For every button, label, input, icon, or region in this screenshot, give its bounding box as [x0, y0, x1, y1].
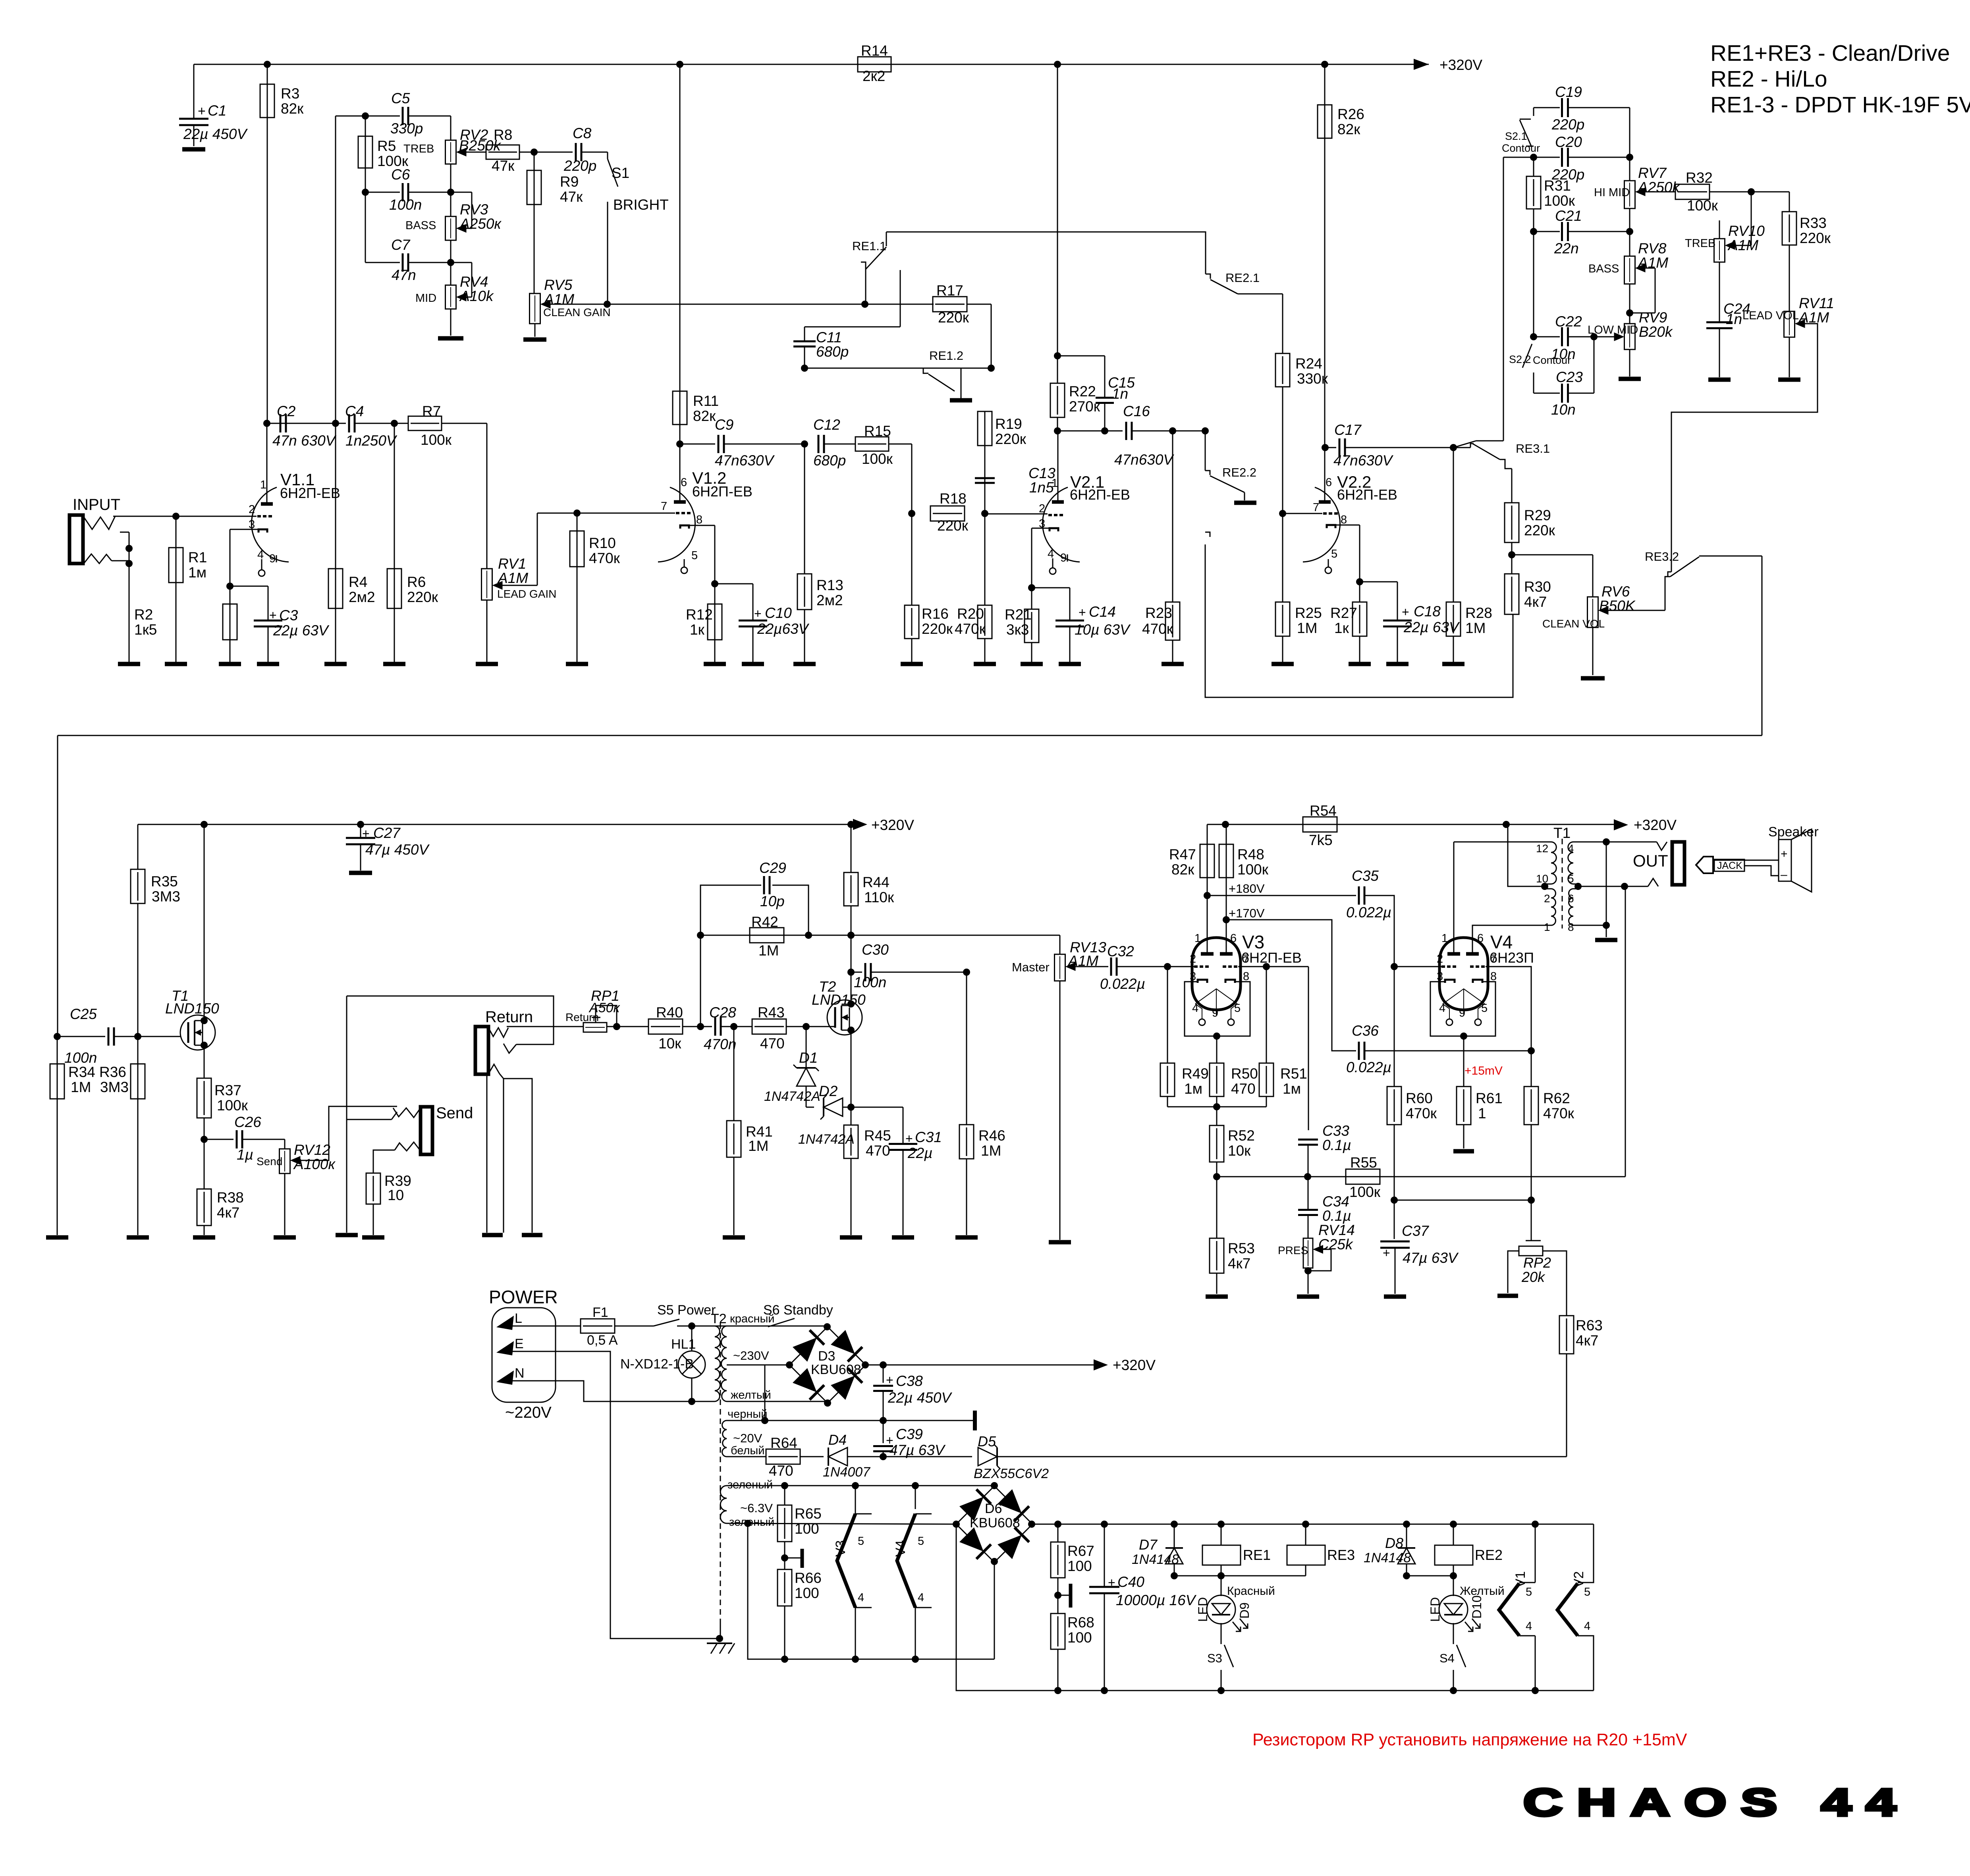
svg-text:6Н2П-ЕВ: 6Н2П-ЕВ — [280, 485, 340, 501]
ground — [219, 662, 241, 666]
svg-text:+: + — [1781, 847, 1788, 861]
svg-text:C37: C37 — [1402, 1223, 1429, 1239]
svg-text:100: 100 — [1067, 1629, 1092, 1646]
svg-text:C23: C23 — [1556, 369, 1583, 385]
svg-text:R5: R5 — [377, 138, 396, 154]
capacitor C19 — [1534, 107, 1560, 108]
svg-text:+320V: +320V — [1439, 57, 1482, 73]
mosfet T2 LND150 — [827, 1000, 862, 1035]
resistor R44 — [851, 824, 852, 872]
wire tone stack left vertical — [335, 116, 336, 423]
svg-text:8: 8 — [696, 513, 702, 526]
ground — [324, 662, 347, 666]
svg-text:R29: R29 — [1524, 507, 1551, 523]
svg-text:R21: R21 — [1005, 606, 1032, 623]
svg-text:3: 3 — [249, 518, 255, 531]
svg-text:C29: C29 — [759, 860, 786, 876]
svg-text:1к: 1к — [1334, 620, 1349, 636]
svg-text:R31: R31 — [1544, 178, 1571, 194]
svg-text:3: 3 — [1437, 970, 1443, 983]
svg-text:R37: R37 — [214, 1082, 241, 1098]
svg-text:RV3: RV3 — [460, 201, 488, 218]
svg-text:470к: 470к — [589, 550, 620, 566]
svg-text:5: 5 — [1526, 1586, 1532, 1598]
wire clean gain feed — [545, 304, 934, 305]
resistor R63 — [1559, 1316, 1574, 1354]
svg-text:RE1+RE3 - Clean/Drive: RE1+RE3 - Clean/Drive — [1710, 41, 1950, 66]
svg-text:~220V: ~220V — [505, 1404, 552, 1421]
svg-text:~230V: ~230V — [733, 1349, 769, 1363]
node +180V — [1204, 892, 1211, 899]
triode V2.1 — [1042, 487, 1080, 562]
capacitor C15 — [1057, 355, 1105, 357]
resistor R25 — [1282, 513, 1283, 602]
svg-text:C14: C14 — [1089, 604, 1116, 620]
ground — [274, 1235, 296, 1240]
ground — [118, 662, 140, 666]
svg-text:82к: 82к — [1337, 121, 1360, 137]
node junction dots on top rail — [264, 61, 271, 68]
svg-text:1к5: 1к5 — [134, 621, 157, 638]
svg-text:R64: R64 — [770, 1435, 797, 1451]
resistor R27 — [1356, 578, 1363, 585]
svg-text:C6: C6 — [391, 166, 410, 183]
capacitor C18 — [1360, 581, 1397, 583]
wire BRIGHT vertical — [607, 202, 608, 304]
triode V2.2 — [1303, 487, 1340, 562]
resistor R49 — [1167, 967, 1168, 1063]
ground — [1059, 662, 1081, 666]
svg-text:47n: 47n — [392, 267, 416, 283]
svg-text:47µ 63V: 47µ 63V — [889, 1442, 946, 1458]
svg-text:V3: V3 — [833, 1540, 848, 1557]
resistor R54 — [1303, 817, 1337, 832]
ground — [349, 871, 372, 875]
resistor R17 — [933, 304, 934, 305]
svg-text:10p: 10p — [760, 893, 785, 909]
svg-text:C16: C16 — [1123, 403, 1150, 419]
svg-text:Contour: Contour — [1502, 142, 1540, 154]
triode V1.2 — [658, 487, 695, 562]
triode V1.1 — [251, 487, 289, 562]
svg-text:V4: V4 — [893, 1540, 908, 1557]
svg-text:T1: T1 — [1553, 825, 1571, 841]
svg-text:D7: D7 — [1139, 1536, 1158, 1553]
wire V3 pin7 to C33 — [1308, 967, 1309, 1130]
svg-text:C25k: C25k — [1318, 1236, 1354, 1253]
resistor R52 — [1210, 1125, 1224, 1162]
capacitor C11 — [900, 270, 901, 327]
svg-text:12: 12 — [1536, 842, 1548, 855]
wire +320V rail to output stage — [1207, 824, 1623, 825]
svg-text:RV9: RV9 — [1639, 309, 1667, 326]
svg-text:2: 2 — [1190, 953, 1196, 965]
svg-text:100к: 100к — [1237, 861, 1269, 878]
svg-text:3M3: 3M3 — [152, 888, 180, 905]
svg-text:10n: 10n — [1551, 401, 1576, 418]
svg-text:R62: R62 — [1543, 1090, 1570, 1106]
capacitor C27 — [360, 824, 361, 838]
svg-text:0.1µ: 0.1µ — [1322, 1208, 1351, 1224]
svg-text:LOW MID: LOW MID — [1588, 324, 1638, 336]
potentiometer RV8 BASS — [1629, 208, 1630, 256]
svg-text:D8: D8 — [1385, 1535, 1403, 1551]
ground — [193, 1235, 215, 1240]
trimmer RP2 20k — [1531, 1200, 1532, 1241]
svg-text:470: 470 — [866, 1143, 890, 1159]
svg-text:1n250V: 1n250V — [345, 432, 397, 449]
resistor R22 — [1054, 352, 1061, 359]
switch S2.2 Contour — [1522, 344, 1532, 368]
capacitor C30 — [847, 969, 855, 976]
resistor R36 — [137, 1036, 139, 1235]
svg-text:4: 4 — [1439, 1002, 1445, 1015]
switch S2.1 Contour — [1533, 108, 1534, 116]
svg-text:CLEAN GAIN: CLEAN GAIN — [543, 306, 611, 318]
svg-text:RV6: RV6 — [1601, 583, 1630, 600]
svg-text:BZX55C6V2: BZX55C6V2 — [974, 1466, 1049, 1481]
svg-text:100к: 100к — [421, 432, 452, 448]
svg-text:D6: D6 — [985, 1501, 1002, 1516]
svg-text:47к: 47к — [560, 189, 583, 205]
svg-text:100к: 100к — [217, 1097, 248, 1114]
heater V1 symbol — [1535, 1524, 1536, 1583]
node junction — [332, 420, 339, 427]
svg-text:20k: 20k — [1521, 1269, 1546, 1285]
svg-text:RE3: RE3 — [1327, 1547, 1355, 1563]
svg-text:3: 3 — [1190, 970, 1196, 983]
svg-text:R63: R63 — [1576, 1317, 1603, 1334]
svg-text:100: 100 — [795, 1585, 819, 1601]
svg-text:4к7: 4к7 — [217, 1204, 239, 1221]
svg-text:B20k: B20k — [1639, 324, 1673, 340]
svg-text:RV11: RV11 — [1799, 295, 1834, 311]
svg-text:~20V: ~20V — [733, 1431, 762, 1445]
svg-text:220к: 220к — [1800, 230, 1831, 246]
V4 cathode box — [1430, 982, 1495, 1036]
svg-text:E: E — [515, 1336, 524, 1351]
svg-text:9: 9 — [1060, 552, 1067, 564]
svg-text:+: + — [886, 1373, 893, 1387]
svg-text:R12: R12 — [686, 606, 713, 623]
relay contact RE1.2 — [923, 368, 928, 373]
svg-text:R7: R7 — [422, 403, 441, 419]
wire RV12 wiper to Send jack tip — [295, 1106, 397, 1160]
diode D8 1N4148 — [1406, 1524, 1407, 1548]
svg-text:R65: R65 — [795, 1505, 822, 1522]
ground — [793, 662, 816, 666]
resistor R42 — [697, 932, 704, 939]
V3 grids — [1194, 965, 1209, 968]
svg-text:S1: S1 — [612, 165, 629, 181]
svg-text:6Н2П-ЕВ: 6Н2П-ЕВ — [1241, 950, 1302, 966]
svg-text:зеленый: зеленый — [729, 1516, 774, 1529]
svg-text:RV8: RV8 — [1638, 240, 1667, 257]
ground — [257, 662, 279, 666]
ground — [566, 662, 588, 666]
svg-text:47n630V: 47n630V — [1114, 452, 1174, 468]
relay contact RE3.1 — [1453, 447, 1470, 448]
svg-text:C13: C13 — [1028, 465, 1055, 481]
potentiometer RV10 TREB — [1719, 220, 1720, 239]
svg-text:Send: Send — [436, 1104, 473, 1122]
wire feedback from output — [1625, 886, 1626, 1177]
svg-text:100к: 100к — [1349, 1184, 1381, 1200]
wire plate node to C2 — [263, 420, 270, 427]
svg-text:6: 6 — [681, 476, 687, 489]
svg-text:R8: R8 — [494, 127, 512, 143]
svg-text:R35: R35 — [151, 873, 178, 890]
resistor R21 — [1028, 584, 1035, 591]
capacitor C29 — [700, 885, 761, 935]
wire presence feedback row — [1217, 1176, 1308, 1177]
ground — [522, 1233, 542, 1237]
capacitor C5 — [402, 107, 404, 125]
svg-text:1N4742A: 1N4742A — [764, 1089, 820, 1104]
svg-text:RV4: RV4 — [460, 274, 488, 290]
chassis tick — [1058, 1595, 1069, 1596]
ground — [165, 662, 187, 666]
svg-text:RE1.2: RE1.2 — [929, 349, 963, 363]
capacitor C14 — [1032, 587, 1070, 589]
ground — [742, 662, 764, 666]
wire HV tap — [727, 1365, 765, 1421]
svg-text:LED: LED — [1428, 1597, 1442, 1622]
node — [676, 440, 683, 448]
V3 plates — [1201, 952, 1214, 956]
wire contour output to RE3.1 branch — [1503, 157, 1534, 158]
resistor R67 — [1057, 1524, 1059, 1542]
svg-text:220p: 220p — [1551, 116, 1584, 133]
ground — [1778, 378, 1800, 382]
svg-text:6: 6 — [1230, 932, 1237, 945]
capacitor C10 — [715, 583, 753, 585]
capacitor C16 — [1125, 422, 1127, 440]
svg-text:1: 1 — [260, 479, 266, 491]
svg-text:D3: D3 — [818, 1349, 835, 1364]
svg-text:+: + — [198, 104, 206, 119]
svg-text:7k5: 7k5 — [1309, 832, 1333, 848]
svg-text:680p: 680p — [813, 452, 846, 469]
svg-text:R24: R24 — [1295, 355, 1322, 372]
svg-text:C11: C11 — [816, 329, 842, 345]
ground — [1049, 1240, 1071, 1245]
capacitor C12 — [818, 435, 820, 453]
resistor R53 — [1210, 1238, 1224, 1273]
V3 cathode box — [1185, 982, 1250, 1036]
mosfet T1 LND150 — [180, 1015, 215, 1050]
resistor R45 — [851, 1107, 852, 1125]
wire contour left chain — [1533, 232, 1534, 340]
svg-text:R6: R6 — [407, 574, 426, 590]
heater V3 symbol — [855, 1486, 856, 1509]
diode D7 1N4148 — [1174, 1524, 1175, 1548]
svg-text:C1: C1 — [208, 102, 226, 119]
svg-text:R20: R20 — [957, 606, 984, 622]
capacitor C1 — [193, 64, 195, 118]
heater V4 symbol — [915, 1486, 916, 1509]
svg-text:+: + — [905, 1131, 913, 1146]
resistor R30 — [1505, 574, 1519, 614]
svg-text:470: 470 — [760, 1035, 785, 1052]
ground — [1272, 662, 1294, 666]
svg-text:T2: T2 — [711, 1311, 727, 1326]
svg-text:V2: V2 — [1571, 1571, 1586, 1588]
svg-text:6Н2П-ЕВ: 6Н2П-ЕВ — [1337, 486, 1397, 503]
svg-text:4: 4 — [1584, 1620, 1590, 1633]
node — [981, 510, 988, 517]
ground — [46, 1235, 68, 1240]
resistor R33 — [1789, 192, 1790, 212]
ground — [1162, 662, 1184, 666]
svg-text:R42: R42 — [751, 914, 778, 930]
svg-text:RE3.1: RE3.1 — [1516, 442, 1550, 455]
svg-text:KBU608: KBU608 — [811, 1362, 861, 1377]
wire RV8 wiper loop — [1640, 268, 1655, 269]
svg-text:C18: C18 — [1414, 603, 1441, 620]
resistor R50 — [1216, 1036, 1218, 1063]
svg-text:1n5: 1n5 — [1029, 479, 1054, 496]
capacitor C21 — [1530, 228, 1537, 235]
svg-text:22µ 450V: 22µ 450V — [888, 1390, 952, 1406]
resistor R20 — [984, 513, 986, 605]
ground — [1021, 662, 1043, 666]
resistor R29 — [1511, 469, 1513, 503]
resistor R37 — [197, 1078, 211, 1118]
svg-text:+320V: +320V — [871, 817, 914, 833]
svg-text:Return: Return — [485, 1008, 533, 1026]
ground — [1297, 1295, 1319, 1299]
wire black 0V — [761, 1417, 768, 1424]
svg-text:C28: C28 — [709, 1004, 736, 1021]
resistor R41 — [733, 1027, 735, 1121]
svg-text:100к: 100к — [1544, 193, 1575, 209]
wire +170V to C36 — [1226, 920, 1356, 1051]
svg-text:5: 5 — [858, 1535, 864, 1548]
wire send normal contact — [346, 996, 347, 1233]
svg-text:470: 470 — [769, 1463, 793, 1479]
resistor R38 — [204, 1139, 205, 1189]
svg-text:RV12: RV12 — [294, 1142, 330, 1158]
wire earth — [556, 1351, 719, 1639]
svg-text:R38: R38 — [217, 1189, 244, 1206]
svg-text:6: 6 — [1326, 476, 1332, 489]
svg-text:470: 470 — [1231, 1081, 1256, 1097]
capacitor C31 — [851, 1107, 903, 1108]
svg-text:R50: R50 — [1231, 1065, 1258, 1082]
svg-text:5: 5 — [1234, 1002, 1241, 1015]
svg-text:D10: D10 — [1470, 1595, 1484, 1619]
capacitor C8 — [575, 143, 577, 161]
Return jack sleeve grounds — [488, 1064, 500, 1074]
resistor R61 — [1463, 1036, 1464, 1087]
ground — [704, 662, 726, 666]
svg-text:D4: D4 — [828, 1432, 847, 1448]
svg-text:+320V: +320V — [1113, 1357, 1156, 1373]
svg-text:6Н2П-ЕВ: 6Н2П-ЕВ — [692, 483, 752, 500]
T2 20V secondary — [722, 1421, 727, 1457]
svg-text:RE2: RE2 — [1475, 1547, 1503, 1563]
svg-text:2: 2 — [1039, 502, 1045, 515]
svg-text:R30: R30 — [1524, 579, 1551, 595]
svg-text:R67: R67 — [1067, 1543, 1094, 1559]
wire heater top — [727, 1485, 994, 1486]
svg-text:D1: D1 — [799, 1050, 818, 1066]
svg-text:C7: C7 — [391, 237, 411, 253]
resistor R11 — [679, 64, 681, 425]
V4 grids — [1441, 965, 1457, 968]
ground — [362, 1235, 384, 1240]
ground — [955, 1235, 978, 1240]
wire RE3.2 to bottom bus — [1762, 556, 1763, 735]
svg-text:R40: R40 — [656, 1004, 683, 1021]
ground — [476, 662, 498, 666]
svg-text:R54: R54 — [1310, 803, 1337, 819]
svg-text:9: 9 — [1212, 1007, 1218, 1019]
svg-text:6: 6 — [1477, 932, 1484, 945]
svg-text:RV1: RV1 — [498, 556, 526, 572]
svg-text:22µ 63V: 22µ 63V — [273, 622, 330, 639]
capacitor C26 — [201, 1136, 208, 1143]
transformer T2 primary — [715, 1326, 720, 1401]
triode V4 6N23P — [1439, 938, 1488, 1010]
wire RP2 right to R63 — [1543, 1251, 1567, 1316]
svg-text:C2: C2 — [277, 403, 296, 419]
svg-text:82к: 82к — [281, 100, 304, 117]
capacitor C17 — [1322, 444, 1329, 451]
svg-text:INPUT: INPUT — [73, 496, 120, 513]
svg-text:R51: R51 — [1280, 1065, 1307, 1082]
ground — [974, 662, 996, 666]
svg-text:TREB: TREB — [403, 143, 434, 155]
LED D10 yellow — [1453, 1576, 1454, 1596]
T1 core — [1562, 839, 1563, 928]
wire R42 vertical taps — [700, 935, 701, 1027]
svg-text:C8: C8 — [573, 125, 592, 141]
svg-text:100: 100 — [795, 1521, 819, 1537]
svg-text:белый: белый — [731, 1444, 764, 1457]
svg-text:110к: 110к — [864, 889, 894, 905]
svg-text:R23: R23 — [1145, 605, 1172, 621]
svg-text:R66: R66 — [795, 1570, 822, 1586]
svg-text:C9: C9 — [715, 417, 733, 433]
capacitor C25 — [108, 1027, 110, 1046]
svg-text:4к7: 4к7 — [1524, 594, 1547, 610]
trimmer RP1 A50k Return level — [583, 1023, 607, 1032]
svg-text:1N4148: 1N4148 — [1364, 1550, 1411, 1565]
diode D4 1N4007 — [828, 1448, 829, 1466]
wire yellow to bridge bottom — [727, 1401, 828, 1402]
svg-text:R3: R3 — [281, 85, 299, 102]
svg-text:Master: Master — [1012, 960, 1050, 974]
svg-text:8: 8 — [1243, 970, 1249, 983]
zener diode D1 1N4742A — [806, 1027, 807, 1068]
svg-text:10: 10 — [1536, 872, 1548, 885]
svg-text:Красный: Красный — [1227, 1585, 1275, 1598]
wire C6 row — [362, 189, 369, 196]
capacitor C35 — [1207, 895, 1356, 896]
svg-text:10к: 10к — [658, 1035, 681, 1052]
wire R15 to grid node — [911, 444, 913, 513]
switch S6 Standby — [727, 1326, 768, 1327]
V4 cathodes — [1445, 980, 1455, 983]
wire relay plus bus — [1032, 1524, 1594, 1525]
svg-text:D5: D5 — [978, 1433, 996, 1449]
svg-text:470к: 470к — [1142, 621, 1173, 637]
svg-text:R1: R1 — [188, 549, 207, 566]
ground — [840, 1235, 862, 1240]
svg-text:+170V: +170V — [1229, 906, 1265, 920]
